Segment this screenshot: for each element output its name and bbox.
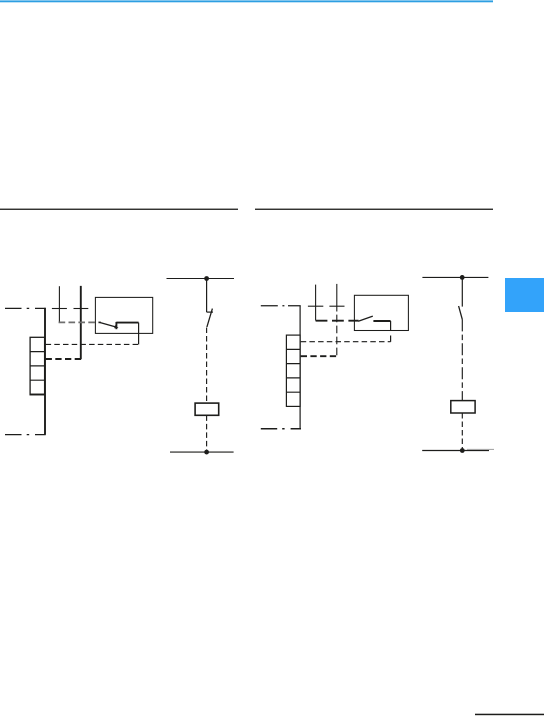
pin 2 crossbar: [329, 305, 344, 307]
contact drop wire: [138, 323, 140, 345]
contact bar left tick: [115, 322, 117, 329]
plug pin 1: [58, 286, 60, 322]
plug pin 2: [336, 284, 338, 312]
moving contact bar: [373, 320, 390, 322]
dashed wire to coil: [461, 319, 463, 400]
left column rule: [0, 209, 238, 210]
switch wire: [461, 277, 463, 306]
terminal block X2 (5 cells): [286, 335, 300, 406]
device outline: [354, 295, 408, 330]
switch lever S: [207, 309, 213, 327]
blue margin tab: [505, 278, 544, 312]
enclosure boundary top (dash-dot): [5, 307, 46, 309]
control wire (bold dashed): [301, 355, 337, 357]
top supply rail: [167, 278, 235, 280]
fixed contact foot: [207, 311, 213, 313]
dashed wire to coil: [206, 328, 208, 404]
right column rule: [255, 209, 493, 210]
enclosure boundary bottom (dash-dot): [261, 428, 301, 430]
mechanical linkage (bold dashed): [316, 320, 359, 322]
top header rule (cyan): [0, 0, 493, 2]
pin 1 crossbar: [52, 308, 67, 310]
enclosure boundary top (dash-dot): [261, 305, 301, 307]
device outline: [95, 297, 152, 333]
pin 1 crossbar: [308, 305, 323, 307]
bottom supply rail: [170, 451, 234, 453]
control wire (dashed): [46, 343, 139, 345]
plug pin 1: [315, 285, 317, 321]
actuator lever: [99, 322, 116, 327]
junction dot bottom: [460, 448, 465, 453]
bottom supply rail: [422, 450, 489, 452]
moving contact bar: [116, 322, 138, 324]
switch lever S: [459, 306, 463, 319]
top supply rail: [422, 276, 488, 278]
relay coil K1: [195, 403, 219, 415]
junction dot top: [460, 275, 465, 280]
control wire (dashed): [301, 341, 391, 343]
switch wire: [206, 279, 208, 313]
relay coil K2: [451, 401, 475, 413]
scan artifact gray line: [467, 448, 494, 450]
actuator arrowhead: [114, 325, 118, 328]
enclosure boundary vertical: [44, 308, 46, 435]
junction dot top: [204, 276, 209, 281]
enclosure boundary vertical: [299, 306, 301, 429]
dashed wire from coil: [461, 413, 463, 451]
control wire (bold dashed): [46, 358, 82, 360]
junction dot bottom: [204, 450, 209, 455]
terminal block X1 (4 cells): [30, 337, 44, 394]
contact drop stub: [390, 336, 392, 342]
mechanical linkage (gray dashed): [59, 321, 101, 323]
enclosure boundary bottom (dash-dot): [5, 434, 46, 436]
actuator lever: [358, 316, 373, 321]
pin 2 dashed drop: [336, 315, 338, 357]
contact drop wire: [390, 321, 392, 330]
pin 2 crossbar: [74, 308, 89, 310]
plug pin 2: [80, 286, 82, 359]
dashed wire from coil: [206, 415, 208, 452]
bottom page rule: [475, 714, 544, 716]
